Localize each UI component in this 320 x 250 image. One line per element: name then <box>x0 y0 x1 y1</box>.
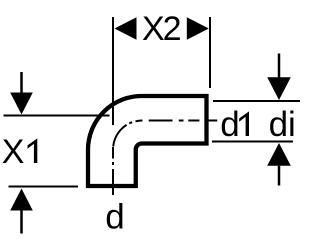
wire X1 top extension line <box>4 115 110 117</box>
svg-text:X2: X2 <box>142 10 181 48</box>
arrow di bottom <box>267 143 291 166</box>
arrow X2 left <box>115 17 137 40</box>
arrow X1 top <box>20 72 23 94</box>
arrow X1 bottom <box>10 189 33 211</box>
pipe elbow body <box>88 96 207 186</box>
svg-text:di: di <box>269 105 296 144</box>
arrow X2 right <box>187 17 209 40</box>
svg-text:d: d <box>105 198 124 237</box>
svg-text:d: d <box>220 105 239 144</box>
centerline (dash-dot) of elbow <box>113 121 217 196</box>
wire X1 bottom extension line <box>9 186 79 188</box>
wire d1/di top extension line <box>213 100 300 102</box>
arrow di top <box>278 54 281 79</box>
wire X2 right extension line <box>209 17 211 88</box>
wire d1/di bottom extension line <box>212 141 293 143</box>
svg-text:X: X <box>2 133 25 171</box>
wire X2 left extension line <box>112 17 114 125</box>
